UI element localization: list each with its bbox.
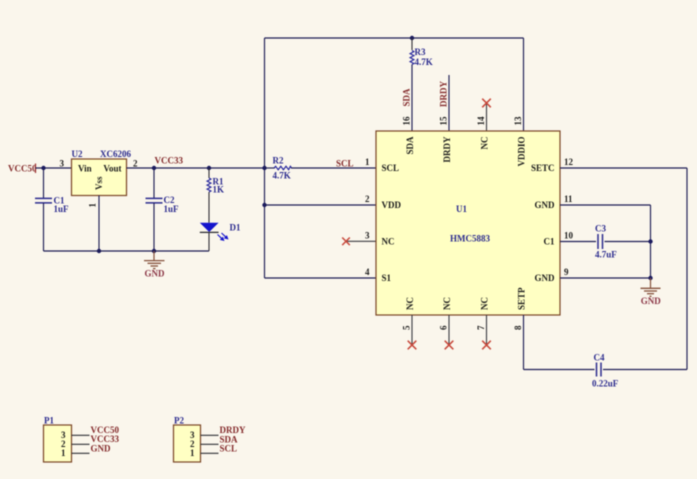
connector P2 bbox=[174, 416, 201, 463]
svg-text:12: 12 bbox=[564, 157, 574, 167]
svg-text:DRDY: DRDY bbox=[442, 136, 452, 162]
wire U2 Vout to R2/VDD rail bbox=[127, 167, 265, 169]
wire U1 pin 12 to right bus bbox=[560, 167, 687, 169]
wire top bus to U1 pin 13 bbox=[523, 38, 525, 131]
svg-text:R2: R2 bbox=[273, 156, 284, 166]
U1 HMC5883 bbox=[376, 131, 560, 315]
svg-text:VCC33: VCC33 bbox=[155, 156, 184, 166]
svg-text:SETP: SETP bbox=[517, 287, 527, 310]
node VCC50/C1 junction bbox=[41, 166, 45, 170]
no-connect X on U1 pin 5 bbox=[408, 315, 417, 349]
node pin 9 GND junction bbox=[648, 276, 652, 280]
svg-text:11: 11 bbox=[564, 194, 573, 204]
svg-text:DRDY: DRDY bbox=[439, 81, 449, 107]
svg-text:Vss: Vss bbox=[94, 176, 104, 190]
svg-text:4.7uF: 4.7uF bbox=[595, 250, 617, 260]
svg-text:NC: NC bbox=[480, 137, 490, 150]
svg-text:GND: GND bbox=[535, 200, 556, 210]
node C3 junction bbox=[648, 239, 652, 243]
svg-text:10: 10 bbox=[564, 231, 574, 241]
svg-text:13: 13 bbox=[513, 116, 523, 126]
wire R1 to D1 bbox=[208, 192, 210, 223]
svg-text:SDA: SDA bbox=[402, 88, 412, 107]
capacitor C2 1uF bbox=[146, 195, 180, 214]
capacitor C3 4.7uF bbox=[595, 224, 617, 260]
svg-text:4.7K: 4.7K bbox=[273, 171, 291, 181]
svg-text:P1: P1 bbox=[44, 416, 54, 426]
svg-text:SCL: SCL bbox=[382, 163, 400, 173]
svg-text:R3: R3 bbox=[415, 47, 426, 57]
wire GND vertical (pins 11/10/9) bbox=[650, 205, 652, 278]
svg-text:XC6206: XC6206 bbox=[100, 149, 131, 159]
svg-text:Vin: Vin bbox=[78, 163, 92, 173]
capacitor C4 0.22uF bbox=[592, 353, 619, 389]
ground GND right bbox=[641, 278, 662, 306]
wire left vertical bus bbox=[264, 38, 266, 278]
no-connect X on U1 pin 6 bbox=[445, 315, 454, 349]
wire C4 to right bus bbox=[603, 369, 687, 371]
svg-text:Vout: Vout bbox=[103, 163, 121, 173]
svg-text:16: 16 bbox=[402, 116, 412, 126]
wire R3 to U1 pin 16 bbox=[411, 65, 413, 132]
svg-text:NC: NC bbox=[480, 297, 490, 310]
svg-text:2: 2 bbox=[133, 159, 138, 169]
svg-text:4.7K: 4.7K bbox=[415, 57, 433, 67]
node VCC33/C2 junction bbox=[152, 166, 156, 170]
wire C2 top lead bbox=[153, 168, 155, 198]
wire C2 bottom lead bbox=[153, 203, 155, 251]
svg-text:C4: C4 bbox=[594, 353, 605, 363]
svg-text:1uF: 1uF bbox=[164, 204, 180, 214]
svg-text:15: 15 bbox=[439, 116, 449, 126]
no-connect X on U1 pin 3 bbox=[342, 238, 376, 246]
net label VCC50 bbox=[8, 164, 37, 174]
svg-text:4: 4 bbox=[365, 267, 370, 277]
wire U2 Vss lead bbox=[98, 196, 100, 252]
svg-text:D1: D1 bbox=[230, 223, 241, 233]
svg-text:1: 1 bbox=[88, 203, 98, 208]
wire P1 pin 2 bbox=[72, 443, 90, 445]
svg-text:2: 2 bbox=[365, 194, 370, 204]
resistor R2 4.7K bbox=[273, 156, 292, 181]
wire bottom-left ground rail bbox=[44, 250, 210, 252]
wire U1 pin 8 down bbox=[523, 315, 525, 370]
svg-text:6: 6 bbox=[439, 325, 449, 330]
wire U1 pin 10 to C3 bbox=[560, 241, 596, 243]
wire C1 bottom lead bbox=[43, 203, 45, 251]
svg-text:SETC: SETC bbox=[531, 163, 555, 173]
wire P1 pin 1 bbox=[72, 452, 90, 454]
LED D1 bbox=[200, 223, 241, 242]
wire VDD to U1 pin 2 bbox=[265, 204, 377, 206]
wire rail to R2 bbox=[265, 167, 276, 169]
wire right vertical bus bbox=[686, 168, 688, 370]
wire U1 pin 9 bbox=[560, 277, 651, 279]
svg-text:1uF: 1uF bbox=[54, 204, 70, 214]
no-connect X on U1 pin 7 bbox=[482, 315, 491, 349]
wire DRDY to U1 pin 15 bbox=[448, 75, 450, 131]
node VDD junction bbox=[262, 203, 266, 207]
svg-text:C3: C3 bbox=[595, 224, 606, 234]
wire P2 pin 1 bbox=[201, 452, 219, 454]
svg-text:NC: NC bbox=[405, 297, 415, 310]
wire C1 top lead bbox=[43, 168, 45, 198]
ground GND left bbox=[144, 251, 165, 279]
svg-text:HMC5883: HMC5883 bbox=[450, 233, 490, 243]
no-connect X on U1 pin 14 bbox=[482, 99, 491, 131]
svg-text:3: 3 bbox=[365, 230, 370, 240]
svg-text:3: 3 bbox=[60, 159, 65, 169]
svg-text:U1: U1 bbox=[456, 204, 467, 214]
connector P1 bbox=[44, 416, 72, 463]
wire S1 to U1 pin 4 bbox=[265, 277, 377, 279]
svg-text:VDDIO: VDDIO bbox=[517, 137, 527, 167]
svg-text:1: 1 bbox=[365, 157, 370, 167]
wire R2 to U1 pin 1 bbox=[291, 167, 376, 169]
svg-text:VDD: VDD bbox=[382, 200, 402, 210]
svg-text:SCL: SCL bbox=[336, 159, 354, 169]
wire P1 pin 3 bbox=[72, 434, 90, 436]
wire pin 8 to C4 bbox=[524, 369, 595, 371]
wire U1 pin 11 bbox=[560, 204, 651, 206]
node Vss/rail junction bbox=[97, 249, 101, 253]
svg-text:GND: GND bbox=[145, 269, 166, 279]
resistor R1 1K bbox=[207, 177, 224, 195]
svg-text:NC: NC bbox=[442, 297, 452, 310]
wire D1 cathode to rail bbox=[208, 232, 210, 251]
svg-text:P2: P2 bbox=[174, 416, 184, 426]
svg-text:1: 1 bbox=[61, 448, 66, 458]
node C2/rail junction bbox=[152, 249, 156, 253]
node R3 top junction bbox=[410, 36, 414, 40]
svg-text:1K: 1K bbox=[213, 185, 225, 195]
svg-text:C1: C1 bbox=[544, 237, 555, 247]
wire P2 pin 2 bbox=[201, 443, 219, 445]
node R1 junction bbox=[207, 166, 211, 170]
capacitor C1 1uF bbox=[35, 196, 69, 214]
svg-text:5: 5 bbox=[402, 325, 412, 330]
svg-text:GND: GND bbox=[535, 273, 556, 283]
wire P2 pin 3 bbox=[201, 434, 219, 436]
svg-text:SDA: SDA bbox=[405, 136, 415, 155]
wire top bus bbox=[265, 37, 524, 39]
node R2/rail junction bbox=[262, 166, 266, 170]
svg-text:SCL: SCL bbox=[220, 444, 238, 454]
svg-text:S1: S1 bbox=[382, 273, 392, 283]
svg-text:8: 8 bbox=[513, 325, 523, 330]
wire R1 top lead bbox=[208, 168, 210, 178]
svg-text:14: 14 bbox=[476, 116, 486, 126]
wire VCC50 to U2 pin 3 bbox=[36, 167, 72, 169]
wire C3 to GND vertical bbox=[605, 241, 651, 243]
svg-text:7: 7 bbox=[476, 325, 486, 330]
svg-text:GND: GND bbox=[91, 444, 112, 454]
svg-text:U2: U2 bbox=[72, 149, 83, 159]
svg-text:0.22uF: 0.22uF bbox=[592, 379, 619, 389]
op-amp U2 regulator XC6206 bbox=[60, 149, 139, 208]
svg-text:VCC33: VCC33 bbox=[91, 434, 120, 444]
svg-text:9: 9 bbox=[564, 267, 569, 277]
svg-text:GND: GND bbox=[641, 296, 662, 306]
svg-text:NC: NC bbox=[382, 236, 395, 246]
svg-text:1: 1 bbox=[190, 448, 195, 458]
svg-text:VCC50: VCC50 bbox=[8, 164, 37, 174]
resistor R3 4.7K bbox=[410, 38, 433, 67]
